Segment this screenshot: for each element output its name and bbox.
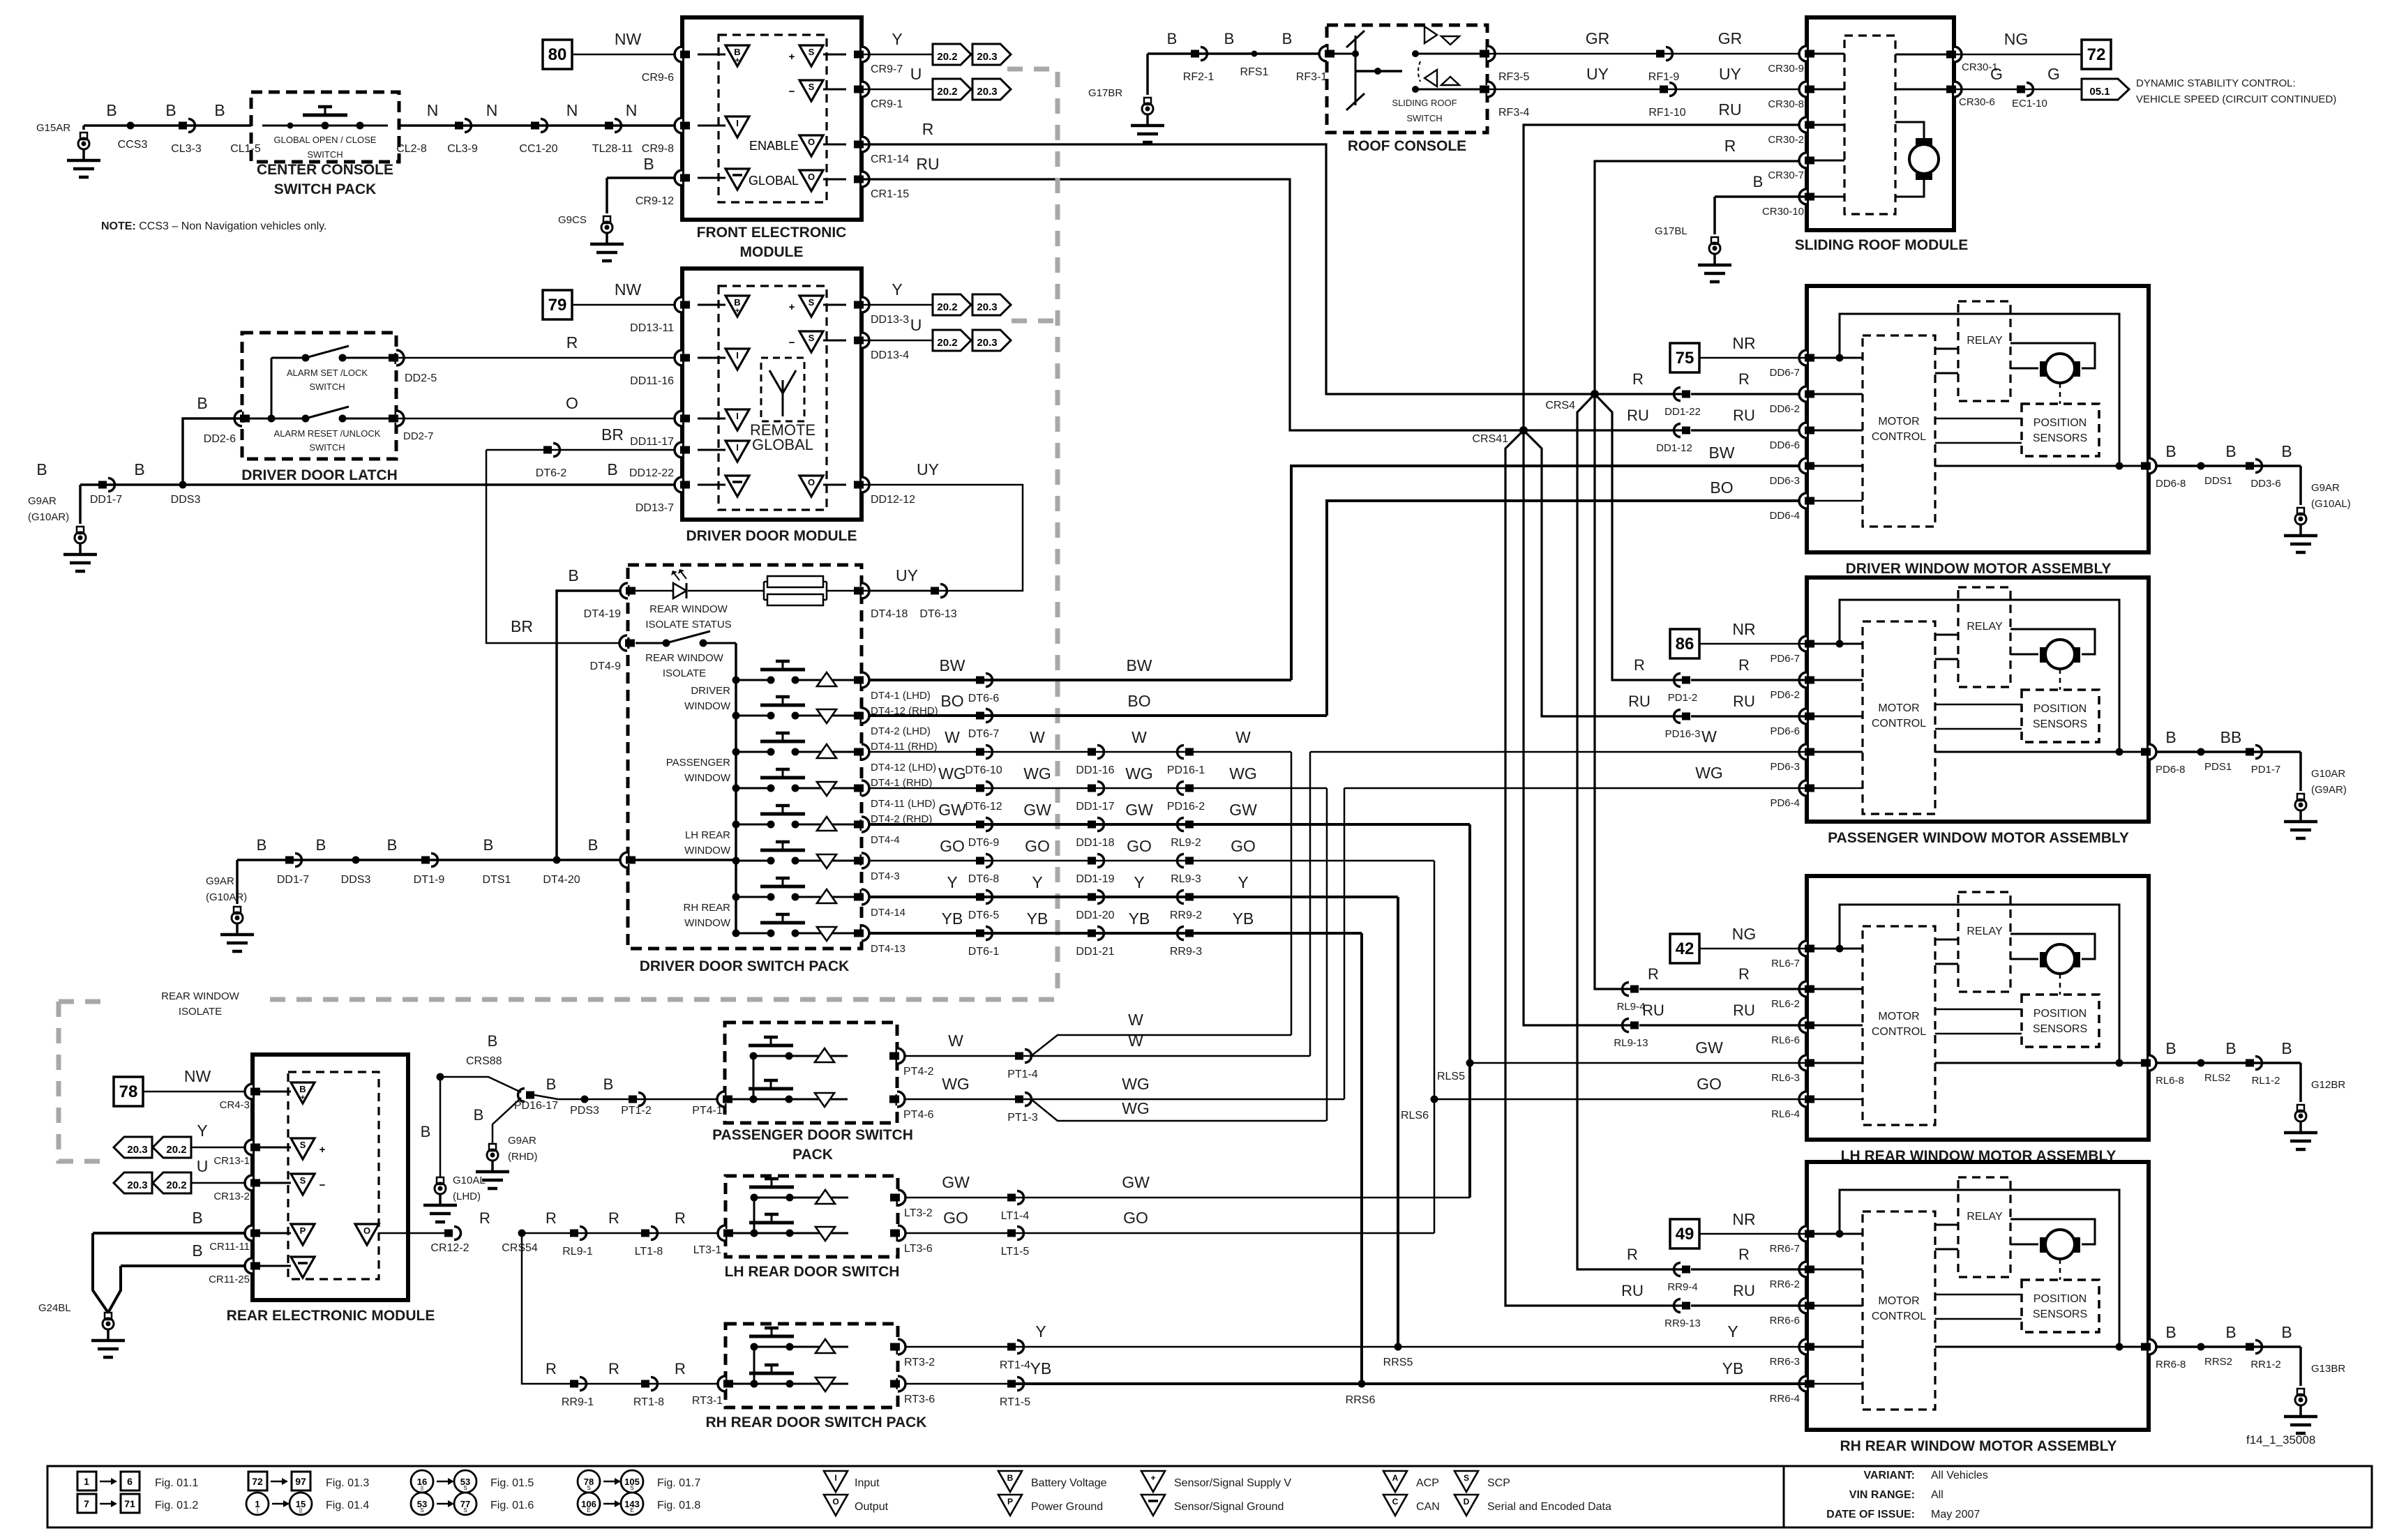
wire NW to CR4-3: [143, 1091, 253, 1093]
connector PD1-7: [2246, 748, 2254, 756]
svg-text:+: +: [320, 1144, 326, 1156]
svg-text:YB: YB: [1129, 909, 1150, 928]
pin CR9-7: [862, 47, 869, 62]
ground G12BR: [2299, 1063, 2302, 1102]
svg-text:RF1-10: RF1-10: [1648, 107, 1685, 119]
splice CRS4: [1591, 390, 1599, 398]
svg-text:YB: YB: [1027, 909, 1048, 928]
svg-text:O: O: [808, 172, 815, 182]
svg-text:R: R: [1738, 656, 1750, 674]
svg-text:DT4-18: DT4-18: [871, 608, 908, 620]
component ROOF CONSOLE box: [1327, 25, 1487, 133]
svg-text:Input: Input: [855, 1477, 880, 1489]
svg-text:VARIANT:: VARIANT:: [1864, 1470, 1915, 1481]
position sensor wiring: [1935, 704, 2022, 706]
svg-text:−: −: [320, 1179, 326, 1191]
svg-text:(G9AR): (G9AR): [2311, 784, 2347, 796]
wire B to roof console: [1148, 52, 1327, 55]
svg-text:Y: Y: [197, 1122, 207, 1140]
svg-text:CL2-8: CL2-8: [396, 143, 427, 155]
svg-text:BW: BW: [1126, 656, 1152, 674]
svg-text:+: +: [735, 56, 739, 65]
module SLIDING ROOF MODULE: [1807, 17, 1954, 230]
svg-text:DD3-6: DD3-6: [2250, 478, 2280, 490]
svg-text:DD11-17: DD11-17: [630, 436, 674, 448]
pin CR30-9: [1799, 46, 1807, 61]
svg-text:B: B: [2281, 1323, 2292, 1341]
wire B to ground: [2156, 465, 2301, 467]
svg-text:PDS1: PDS1: [2204, 761, 2232, 773]
ground G9AR (G10AR) left: [77, 527, 84, 534]
wire UY to sliding roof module: [1487, 89, 1807, 91]
svg-text:RU: RU: [1628, 693, 1651, 710]
svg-text:RL9-1: RL9-1: [562, 1246, 593, 1258]
wire YB to RR6-4: [1015, 1382, 1807, 1385]
svg-text:−: −: [789, 337, 795, 349]
svg-text:O: O: [363, 1225, 370, 1236]
svg-text:S: S: [463, 1507, 467, 1513]
svg-text:NW: NW: [615, 280, 642, 299]
connector PD16-17: [526, 1092, 534, 1099]
svg-text:B: B: [299, 1084, 306, 1094]
svg-text:RH REAR: RH REAR: [683, 902, 730, 914]
svg-text:O: O: [832, 1497, 839, 1507]
svg-text:G9AR: G9AR: [206, 875, 234, 887]
svg-text:GO: GO: [1231, 837, 1256, 855]
wire Y riser to RRS5: [1397, 897, 1399, 1347]
pin DT4-19: [620, 583, 628, 598]
pin CR1-14: [862, 137, 869, 152]
svg-text:B: B: [734, 297, 740, 308]
wire UY from DT4-18: [862, 590, 935, 592]
svg-text:20.2: 20.2: [937, 86, 957, 98]
pin RL6-8: [2149, 1055, 2156, 1071]
svg-text:Fig. 01.7: Fig. 01.7: [657, 1477, 700, 1489]
svg-text:DD6-2: DD6-2: [1770, 403, 1800, 415]
svg-text:DT4-12 (LHD): DT4-12 (LHD): [871, 762, 936, 773]
connector RL9-2: [1185, 821, 1194, 829]
svg-text:NG: NG: [1732, 925, 1757, 943]
svg-text:SLIDING ROOF: SLIDING ROOF: [1392, 98, 1457, 108]
legend fig col 2: [248, 1472, 267, 1490]
svg-text:RL6-8: RL6-8: [2156, 1075, 2184, 1087]
svg-text:SENSORS: SENSORS: [2033, 432, 2087, 444]
svg-text:DT4-11 (RHD): DT4-11 (RHD): [871, 741, 938, 753]
svg-text:W: W: [1030, 728, 1045, 746]
svg-text:BR: BR: [601, 425, 624, 444]
svg-text:Fig. 01.2: Fig. 01.2: [155, 1500, 198, 1511]
svg-text:GO: GO: [1025, 837, 1050, 855]
svg-text:I: I: [736, 118, 739, 128]
svg-text:42: 42: [1676, 939, 1694, 958]
svg-text:PD16-17: PD16-17: [514, 1100, 558, 1112]
pin DD6-4: [1799, 493, 1807, 508]
node CCS3: [127, 122, 135, 130]
svg-text:75: 75: [1676, 349, 1694, 368]
svg-text:DT4-1 (RHD): DT4-1 (RHD): [871, 777, 932, 789]
svg-text:S: S: [630, 1485, 633, 1491]
ground G9AR (RHD): [493, 1098, 521, 1144]
pin DD13-7: [675, 477, 682, 492]
ground G13BR: [2299, 1347, 2302, 1386]
pin DD6-2: [1799, 386, 1807, 402]
ground G10AR: [2299, 752, 2302, 791]
position sensor wiring: [1935, 1294, 2022, 1296]
svg-text:DTS1: DTS1: [483, 874, 511, 886]
svg-text:G9CS: G9CS: [558, 214, 587, 226]
svg-text:P: P: [300, 1225, 306, 1236]
splice PDS1: [2197, 748, 2205, 756]
legend symbol output: [824, 1495, 848, 1516]
window switch row DT4-11 (LHD): [732, 785, 740, 792]
pin DD12-22: [675, 442, 682, 458]
wire BR DT6-2 to DD12-22: [486, 449, 682, 451]
svg-text:O: O: [566, 394, 578, 412]
connector DD1-21: [1088, 930, 1096, 937]
svg-text:79: 79: [548, 296, 567, 315]
pin RR6-2: [1799, 1262, 1807, 1277]
fig ref 80 box: [543, 40, 572, 69]
svg-text:B: B: [1753, 173, 1764, 190]
svg-text:B: B: [192, 1241, 202, 1260]
connector EC1-10: [2017, 86, 2025, 93]
svg-text:B: B: [568, 566, 578, 584]
relay box: [1958, 1177, 2010, 1277]
pin CR30-6: [1954, 82, 1962, 97]
component: [725, 1022, 897, 1123]
svg-text:SWITCH: SWITCH: [309, 382, 345, 392]
svg-text:20.2: 20.2: [937, 337, 957, 349]
symbol output GLOBAL: [799, 170, 823, 191]
svg-text:DD13-3: DD13-3: [871, 314, 909, 326]
wire W from switch pack: [869, 751, 1291, 753]
rem symbols: [291, 1082, 315, 1103]
fig ref box 75: [1670, 343, 1699, 372]
svg-text:Y: Y: [892, 30, 902, 48]
svg-text:R: R: [675, 1209, 686, 1227]
svg-text:RELAY: RELAY: [1967, 1211, 2003, 1223]
svg-text:G: G: [1990, 65, 2003, 83]
svg-text:Sensor/Signal Ground: Sensor/Signal Ground: [1174, 1501, 1284, 1513]
wire YB from RT3-6: [905, 1383, 1015, 1385]
position sensor wiring: [1935, 1009, 2022, 1011]
svg-text:B: B: [1007, 1473, 1014, 1483]
svg-text:RRS6: RRS6: [1346, 1394, 1376, 1406]
svg-text:RR6-6: RR6-6: [1770, 1315, 1800, 1327]
svg-text:20.3: 20.3: [127, 1179, 147, 1191]
module LH REAR WINDOW MOTOR ASSEMBLY: [1807, 876, 2149, 1140]
svg-text:RR9-3: RR9-3: [1170, 946, 1202, 958]
connector DT6-2: [543, 446, 552, 454]
connector DT1-9: [421, 856, 430, 864]
svg-text:E: E: [587, 1507, 590, 1513]
connector CL3-9: [455, 122, 463, 130]
svg-text:B: B: [197, 394, 207, 412]
svg-text:RLS5: RLS5: [1437, 1071, 1465, 1082]
svg-text:DD1-21: DD1-21: [1076, 946, 1114, 958]
svg-text:B: B: [734, 47, 740, 57]
svg-text:FRONT ELECTRONIC: FRONT ELECTRONIC: [697, 225, 847, 241]
svg-text:||: ||: [421, 1485, 423, 1491]
pin DD6-6: [1799, 423, 1807, 438]
window switch row DT4-2 (LHD): [732, 712, 740, 720]
svg-text:PD6-4: PD6-4: [1770, 797, 1800, 809]
svg-text:RELAY: RELAY: [1967, 621, 2003, 633]
connector DT6-6: [976, 677, 984, 684]
pin CR13-2: [245, 1175, 253, 1191]
connector DT6-12: [976, 785, 984, 792]
wire BR to DT4-9: [486, 450, 627, 643]
svg-text:RU: RU: [1718, 100, 1741, 119]
connector RT1-5: [1007, 1380, 1016, 1388]
fig ref box 49: [1670, 1219, 1699, 1248]
motor control box: [1863, 926, 1935, 1125]
legend fig row 1: [77, 1472, 96, 1490]
svg-text:RT3-2: RT3-2: [904, 1357, 935, 1368]
svg-text:RR6-2: RR6-2: [1770, 1278, 1800, 1290]
pin RL6-3: [1799, 1055, 1807, 1071]
svg-text:78: 78: [119, 1082, 138, 1101]
svg-text:SWITCH PACK: SWITCH PACK: [274, 181, 377, 197]
svg-text:CRS4: CRS4: [1545, 400, 1575, 412]
connector DD1-18: [1088, 821, 1096, 829]
legend bar: [47, 1466, 2372, 1527]
svg-text:20.3: 20.3: [977, 337, 997, 349]
wire BO riser to driver motor: [1327, 501, 1807, 716]
svg-text:RF3-4: RF3-4: [1498, 107, 1530, 119]
connector RL1-2: [2246, 1059, 2254, 1067]
svg-text:CONTROL: CONTROL: [1872, 1311, 1926, 1322]
svg-text:DD1-18: DD1-18: [1076, 837, 1114, 849]
svg-text:CR4-3: CR4-3: [220, 1099, 250, 1111]
wire B row bottom: [234, 907, 241, 914]
pin DT4-20: [620, 852, 628, 868]
wire RU branch to RH rear: [1505, 430, 1683, 1306]
svg-text:PD6-7: PD6-7: [1770, 653, 1800, 665]
wire B to DT4-19: [557, 591, 628, 860]
svg-text:RRS2: RRS2: [2204, 1356, 2232, 1368]
pin CR30-2: [1799, 117, 1807, 133]
connector RR9-1: [570, 1380, 578, 1388]
alarm set/lock switch: [271, 357, 306, 359]
svg-text:GLOBAL: GLOBAL: [749, 174, 799, 188]
position sensors box: [2022, 404, 2099, 456]
svg-text:R: R: [1738, 965, 1750, 983]
connector PT1-4: [1015, 1052, 1023, 1060]
svg-text:SLIDING ROOF MODULE: SLIDING ROOF MODULE: [1795, 237, 1969, 253]
connector DD1-22: [1682, 391, 1690, 398]
svg-text:CR30-6: CR30-6: [1959, 96, 1995, 108]
svg-text:ISOLATE: ISOLATE: [663, 667, 706, 679]
svg-text:B: B: [483, 836, 494, 854]
pin PD6-4: [1799, 780, 1807, 796]
wire W from PT4-2: [905, 1055, 1310, 1057]
svg-text:49: 49: [1676, 1225, 1694, 1244]
svg-text:DT4-9: DT4-9: [590, 660, 622, 672]
svg-text:NOTE: CCS3 – Non Navigation ve: NOTE: CCS3 – Non Navigation vehicles onl…: [101, 220, 326, 232]
svg-text:DDS1: DDS1: [2204, 475, 2232, 487]
svg-text:PT4-2: PT4-2: [903, 1066, 934, 1078]
svg-text:PD1-2: PD1-2: [1668, 692, 1698, 704]
svg-text:DD6-4: DD6-4: [1770, 510, 1800, 522]
connector PT1-3: [1015, 1096, 1023, 1103]
svg-text:B: B: [36, 460, 47, 478]
pin CR11-25: [245, 1258, 253, 1274]
splice PDS3: [581, 1096, 589, 1103]
svg-text:RT1-5: RT1-5: [1000, 1396, 1030, 1408]
svg-text:CENTER CONSOLE: CENTER CONSOLE: [257, 162, 393, 178]
svg-text:+: +: [1150, 1473, 1155, 1483]
roof motor: [1909, 144, 1939, 174]
svg-text:PD16-2: PD16-2: [1167, 801, 1205, 813]
svg-text:B: B: [607, 460, 617, 478]
position sensors box: [2022, 690, 2099, 742]
wire B to center console switch pack: [84, 124, 251, 127]
connector RT1-8: [641, 1380, 649, 1388]
pin RF3-1: [1319, 46, 1327, 61]
ground G17BR: [1144, 98, 1151, 105]
svg-text:G10AL: G10AL: [453, 1175, 486, 1186]
component DRIVER DOOR LATCH: [242, 333, 396, 459]
svg-text:GO: GO: [943, 1209, 968, 1227]
svg-text:GO: GO: [1123, 1209, 1148, 1227]
svg-text:YB: YB: [1722, 1359, 1744, 1377]
wire R from CR1-14 to CRS4: [862, 144, 1683, 394]
svg-text:CR9-8: CR9-8: [642, 143, 674, 155]
pin PD6-3: [1799, 744, 1807, 760]
pin RL6-6: [1799, 1018, 1807, 1033]
svg-text:DRIVER: DRIVER: [691, 685, 730, 697]
svg-text:20.2: 20.2: [166, 1179, 186, 1191]
connector RF1-10: [1660, 86, 1668, 93]
svg-text:PASSENGER DOOR SWITCH: PASSENGER DOOR SWITCH: [712, 1127, 913, 1143]
wire GO from LT3-6: [905, 1232, 1434, 1235]
svg-text:WG: WG: [1125, 764, 1153, 783]
svg-text:S: S: [420, 1507, 423, 1513]
relay box: [1958, 301, 2010, 401]
svg-text:DT4-13: DT4-13: [871, 943, 905, 955]
svg-text:RLS2: RLS2: [2204, 1072, 2231, 1084]
svg-text:DDS3: DDS3: [341, 874, 371, 886]
svg-text:f14_1_35008: f14_1_35008: [2246, 1433, 2315, 1447]
svg-text:DD1-22: DD1-22: [1664, 406, 1701, 418]
svg-text:UY: UY: [1719, 65, 1741, 83]
svg-text:CL1-5: CL1-5: [230, 143, 261, 155]
wire RU from CR1-15 to CRS41: [862, 179, 1683, 430]
svg-text:G17BL: G17BL: [1655, 225, 1687, 237]
module RH REAR WINDOW MOTOR ASSEMBLY: [1807, 1162, 2149, 1430]
svg-text:RR6-7: RR6-7: [1770, 1243, 1800, 1255]
svg-text:CR30-9: CR30-9: [1768, 63, 1804, 75]
svg-text:CRS41: CRS41: [1472, 433, 1508, 445]
svg-text:CR30-10: CR30-10: [1762, 206, 1804, 218]
svg-text:REAR ELECTRONIC MODULE: REAR ELECTRONIC MODULE: [227, 1308, 435, 1324]
window switch row DT4-13: [732, 930, 740, 937]
svg-text:WINDOW: WINDOW: [684, 845, 731, 856]
svg-text:SENSORS: SENSORS: [2033, 1023, 2087, 1035]
wire W branch up to driver pack: [1031, 1035, 1291, 1056]
svg-text:POSITION: POSITION: [2034, 417, 2087, 429]
svg-text:DD12-22: DD12-22: [629, 467, 674, 479]
svg-text:RU: RU: [916, 155, 939, 173]
svg-text:DRIVER WINDOW MOTOR ASSEMBLY: DRIVER WINDOW MOTOR ASSEMBLY: [1846, 561, 2112, 577]
pin RR6-3: [1799, 1339, 1807, 1354]
svg-text:(G10AL): (G10AL): [2311, 498, 2351, 510]
svg-text:GW: GW: [942, 1173, 970, 1191]
position sensor wiring: [1935, 418, 2022, 420]
svg-text:B: B: [488, 1032, 498, 1050]
svg-text:RELAY: RELAY: [1967, 335, 2003, 347]
svg-text:W: W: [1235, 728, 1251, 746]
svg-text:Y: Y: [892, 280, 902, 299]
svg-text:YB: YB: [1030, 1359, 1052, 1377]
svg-text:DD6-7: DD6-7: [1770, 367, 1800, 379]
fig ref box 42: [1670, 934, 1699, 963]
pin RF3-5: [1487, 46, 1495, 61]
connector DD1-20: [1088, 893, 1096, 901]
svg-text:RELAY: RELAY: [1967, 926, 2003, 937]
pin DD11-17: [675, 411, 682, 426]
svg-text:+: +: [789, 51, 795, 63]
svg-text:ALARM SET /LOCK: ALARM SET /LOCK: [287, 368, 368, 378]
pin RL6-4: [1799, 1092, 1807, 1107]
svg-text:BW: BW: [1708, 444, 1734, 462]
svg-text:|: |: [257, 1507, 258, 1513]
svg-text:CR30-2: CR30-2: [1768, 134, 1804, 146]
svg-text:WINDOW: WINDOW: [684, 917, 731, 929]
svg-text:DD1-7: DD1-7: [277, 874, 309, 886]
svg-text:B: B: [387, 836, 398, 854]
svg-text:O: O: [808, 137, 815, 147]
svg-text:MOTOR: MOTOR: [1878, 702, 1919, 714]
connector RR9-2: [1185, 893, 1194, 901]
svg-text:B: B: [316, 836, 326, 854]
svg-text:MOTOR: MOTOR: [1878, 1295, 1919, 1307]
svg-text:DT4-19: DT4-19: [584, 608, 621, 620]
position sensors box: [2022, 995, 2099, 1047]
connector RF2-1: [1191, 50, 1199, 58]
svg-text:RU: RU: [1733, 1282, 1755, 1299]
wire WG to PD6-4: [1344, 787, 1807, 790]
pin RL6-2: [1799, 981, 1807, 997]
svg-text:RR6-8: RR6-8: [2156, 1359, 2186, 1371]
svg-text:WG: WG: [942, 1075, 970, 1093]
svg-text:All: All: [1931, 1489, 1944, 1501]
wire R down to RH rear door switch: [522, 1233, 726, 1384]
svg-text:R: R: [546, 1360, 557, 1377]
wire GR to sliding roof module: [1487, 53, 1807, 55]
svg-text:B: B: [2225, 1039, 2236, 1057]
pin CR11-11: [245, 1225, 253, 1241]
svg-text:DT6-9: DT6-9: [968, 837, 1000, 849]
svg-text:B: B: [421, 1123, 431, 1140]
svg-text:RRS5: RRS5: [1383, 1357, 1413, 1368]
wire GW from LT3-2: [905, 1197, 1470, 1199]
svg-text:All Vehicles: All Vehicles: [1931, 1470, 1988, 1481]
module PASSENGER WINDOW MOTOR ASSEMBLY: [1807, 577, 2149, 822]
wire O latch to DD11-17: [396, 418, 682, 420]
pin DD2-5: [396, 350, 404, 365]
ground G15AR: [80, 133, 87, 139]
svg-text:RT3-1: RT3-1: [692, 1395, 723, 1407]
svg-text:DT6-12: DT6-12: [965, 801, 1002, 813]
legend fig col 4: [578, 1470, 600, 1493]
ground G10AL (LHD): [439, 1077, 442, 1177]
svg-text:MODULE: MODULE: [740, 244, 804, 260]
svg-text:Y: Y: [1134, 873, 1144, 891]
splice CRS88 with B wires: [437, 1073, 444, 1081]
svg-text:R: R: [1627, 1246, 1638, 1263]
